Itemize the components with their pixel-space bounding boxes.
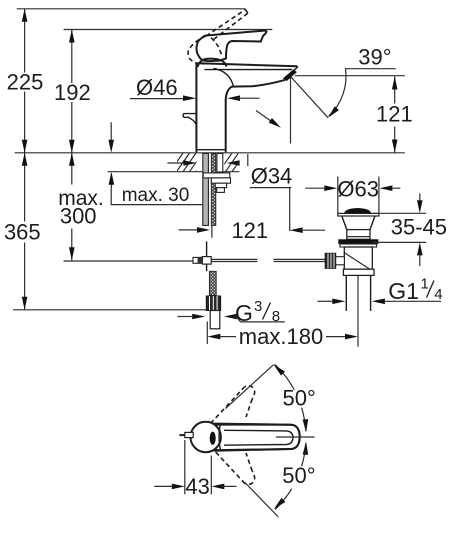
dimension arrows hole Ø34 [167,160,239,166]
small flow arrow [256,111,283,131]
label 39 degree underline [345,68,396,70]
dimension G3/8 arrows [178,314,285,322]
svg-text:121: 121 [376,102,413,127]
plan view pivot cap circle [191,422,221,452]
mounting nut step 3 [217,188,225,193]
drain black seal ring [338,239,378,244]
plan view slot [210,432,216,445]
svg-text:300: 300 [60,203,97,228]
svg-text:8: 8 [272,308,280,325]
dimension Ø46 leader and arrows [130,95,260,101]
plan view lever outline [213,425,300,451]
svg-text:Ø34: Ø34 [251,163,293,188]
dimension 43 [154,440,236,494]
plan view lever inner contour [224,430,293,445]
spout second top edge [205,69,293,71]
svg-text:192: 192 [54,80,91,105]
dimension 225 top extension line [17,8,246,10]
dimension 121 below counter [179,225,326,238]
lever raised dashed bottom edge [214,13,248,39]
lever raised dashed neck edge [211,38,222,55]
svg-text:121: 121 [231,218,268,243]
cartridge dome under handle [198,59,227,67]
angle arc 39 degrees [326,68,346,119]
countertop underside line [108,171,240,173]
plan view axis line [276,436,315,438]
mounting nut step 1 [211,178,230,183]
svg-text:365: 365 [4,220,41,245]
spout top edge [196,63,296,66]
upper 50 arc [272,363,309,433]
lower hose threaded section [209,271,216,295]
svg-text:max.180: max.180 [239,324,323,349]
pop-up rod knob at drain [325,253,336,268]
dimension max30 lower arrow and bracket [109,172,207,205]
spout mouth aerator face [283,70,296,81]
drain lower body [344,247,372,269]
plan view joint curve [219,424,221,450]
dimension 121 height right [392,77,398,153]
drain plug dome [344,208,371,213]
dimension line 192/max300 [69,30,75,261]
dimension G1 1/4 arrows [318,299,442,305]
svg-text:39°: 39° [358,44,391,69]
plan view raised handle upper dashed [211,389,244,424]
lower 50 arc [272,442,309,511]
threaded mounting rod [211,154,216,226]
lever raised dashed top edge [206,10,246,37]
plan view knob pin [179,434,184,436]
max300 bottom reference line [64,260,195,262]
countertop hatching right [219,153,245,172]
drain Ø63 extension lines [338,177,379,214]
pop-up pull rod vertical [206,241,208,271]
label Ø34 leader [247,154,249,166]
svg-text:35-45: 35-45 [391,214,447,239]
lever handle solid [196,31,266,62]
dimension 35-45 extension lines [373,213,426,242]
svg-text:43: 43 [185,474,209,499]
drain plug flange [338,213,379,216]
pop-up rod knob on body [183,114,196,118]
horizontal pop-up rod right segment [274,259,326,261]
dimension 35-45 arrows [417,194,423,267]
dimension max30 upper arrow [108,122,114,153]
G3/8 fitting nut [206,296,220,311]
rod stem into drain [336,257,345,265]
drain internal diagonal [345,253,370,269]
svg-text:Ø46: Ø46 [136,75,178,100]
bottom reference line 365 [13,309,208,311]
label Ø34 underline and drop line [250,188,291,231]
upper axis extension line [226,365,274,409]
spout tip extension line [295,75,405,77]
plan view raised handle lower dashed [211,447,244,482]
pull rod junction block [202,257,211,265]
lever raised dashed tip [246,10,248,14]
svg-text:50°: 50° [283,386,316,411]
horizontal pop-up rod left segment [211,259,257,261]
tube below fitting [210,311,220,329]
lower axis extension line [245,483,279,518]
spout underside [226,80,285,100]
dimension line 225/365 [22,9,28,310]
faucet body column [196,64,225,152]
dimension max180 [207,322,358,344]
vertical reference line at spout mouth [290,77,292,144]
spout tip end face [284,67,298,81]
svg-text:Ø63: Ø63 [337,177,379,202]
plan view knob bar [185,432,193,437]
countertop reference line [15,152,405,154]
mounting washer [203,173,230,178]
svg-text:4: 4 [434,286,442,303]
flexible hose below base [203,154,209,226]
drain upper body [347,230,370,240]
svg-text:225: 225 [7,69,44,94]
faucet base line [196,149,225,151]
lever raised dashed grip outline [188,36,206,64]
drain bottom ring [343,269,374,275]
drain nut band [340,244,377,247]
svg-text:max. 30: max. 30 [122,185,190,206]
mounting nut step 2 [215,183,226,188]
drain centerline / max180 extension [357,275,359,346]
countertop hatching left [170,153,209,172]
drain tailpipe [346,275,370,311]
svg-text:3: 3 [254,298,262,315]
svg-text:1: 1 [421,276,429,293]
dimension Ø63 arrows [305,185,400,191]
dimension 192 top extension line [64,29,273,31]
pull rod left connector [193,257,202,263]
svg-text:G1: G1 [388,278,419,304]
water stream direction line [291,77,328,118]
svg-text:G: G [235,300,253,326]
svg-text:50°: 50° [282,463,315,488]
right shank tube [217,154,223,173]
body to spout transition curve [214,68,234,86]
drain plug skirt [342,216,375,230]
